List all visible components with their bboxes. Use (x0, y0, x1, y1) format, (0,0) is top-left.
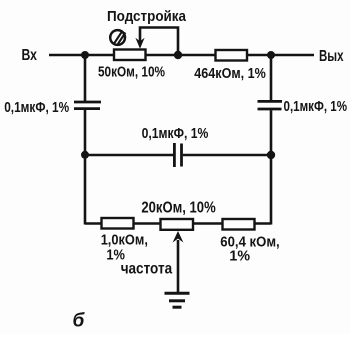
wire: right vertical branch upper (270, 55, 273, 100)
svg-text:464кОм, 1%: 464кОм, 1% (194, 66, 266, 82)
node: input junction (81, 51, 89, 59)
wire: R4 wiper to ground (177, 240, 180, 293)
wire: left vertical branch upper (84, 55, 87, 101)
svg-text:Вх: Вх (22, 47, 38, 64)
svg-text:0,1мкФ, 1%: 0,1мкФ, 1% (4, 99, 69, 116)
resistor R1 50кОм trimmer body (114, 50, 146, 61)
svg-text:Подстройка: Подстройка (107, 8, 187, 25)
wire: top main horizontal Вх-Вых (49, 54, 314, 57)
svg-text:0,1мкФ, 1%: 0,1мкФ, 1% (142, 125, 209, 142)
wire: middle horizontal right of C3 (183, 154, 271, 157)
svg-text:50кОм, 10%: 50кОм, 10% (98, 64, 165, 80)
svg-text:1%: 1% (229, 247, 250, 264)
capacitor C1 0,1мкФ left plates (74, 102, 101, 109)
resistor R2 464кОм body (216, 50, 248, 61)
wire: middle horizontal left of C3 (85, 154, 173, 157)
ground (165, 293, 190, 307)
resistor R3 1,0кОм body (102, 218, 134, 229)
svg-text:частота: частота (121, 261, 172, 278)
capacitor C2 0,1мкФ right plates (258, 101, 283, 109)
potentiometer R4 20кОм body (161, 219, 194, 230)
node: middle wire right junction (267, 151, 275, 159)
wire: trimmer R1 wiper loop (up, across, down to right terminal) (140, 28, 178, 55)
svg-text:20кОм, 10%: 20кОм, 10% (141, 200, 215, 217)
resistor R5 60,4кОм body (223, 219, 255, 230)
node: output junction (267, 51, 275, 59)
svg-text:0,1мкФ, 1%: 0,1мкФ, 1% (284, 98, 348, 115)
potentiometer R4 wiper arrowhead (pointing up at body) (173, 231, 184, 243)
capacitor C3 0,1мкФ middle plates (174, 143, 181, 167)
svg-text:б: б (73, 311, 86, 332)
wire: left vertical branch lower (84, 110, 87, 225)
wire: bottom horizontal (85, 222, 271, 225)
trimmer R1 screwdriver-slot symbol (circle with double slash) (110, 30, 125, 45)
svg-text:Вых: Вых (319, 48, 344, 65)
wire: right vertical branch lower (270, 110, 273, 224)
node: middle wire left junction (81, 151, 89, 159)
trimmer R1 wiper arrowhead (pointing down onto body) (135, 38, 144, 49)
node: trimmer terminal junction (174, 51, 182, 59)
